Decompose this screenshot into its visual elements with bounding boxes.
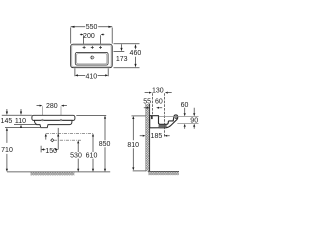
svg-text:530: 530 — [70, 153, 82, 160]
svg-text:810: 810 — [127, 142, 139, 149]
svg-text:410: 410 — [85, 73, 97, 80]
svg-text:200: 200 — [83, 33, 95, 40]
svg-text:55: 55 — [143, 98, 151, 105]
svg-text:150: 150 — [45, 148, 57, 155]
svg-text:185: 185 — [151, 133, 163, 140]
svg-text:610: 610 — [86, 153, 98, 160]
svg-text:130: 130 — [152, 87, 164, 94]
svg-text:60: 60 — [155, 98, 163, 105]
svg-text:90: 90 — [190, 118, 198, 125]
svg-text:173: 173 — [116, 56, 128, 63]
svg-text:460: 460 — [130, 50, 142, 57]
svg-text:550: 550 — [86, 24, 98, 31]
svg-text:145: 145 — [1, 118, 13, 125]
svg-text:60: 60 — [181, 102, 189, 109]
svg-text:280: 280 — [46, 103, 58, 110]
svg-text:110: 110 — [15, 118, 26, 125]
svg-text:710: 710 — [1, 147, 13, 154]
svg-text:850: 850 — [99, 141, 111, 148]
